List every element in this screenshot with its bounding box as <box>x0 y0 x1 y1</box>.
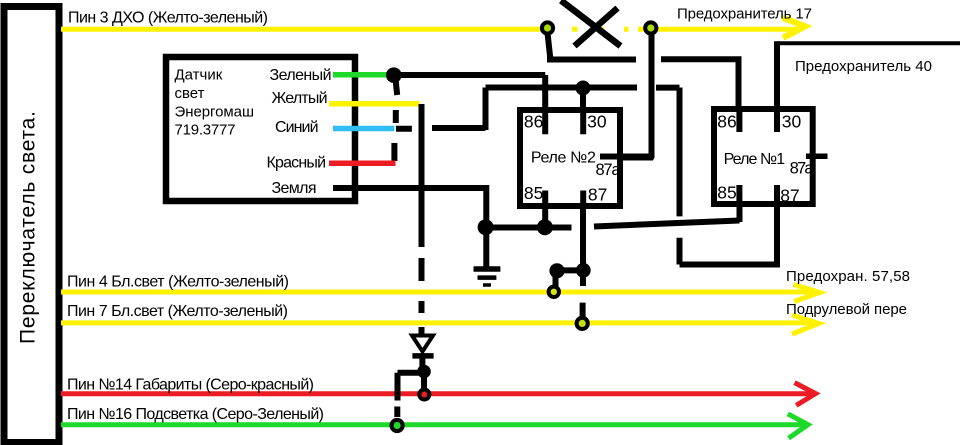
svg-text:Желтый: Желтый <box>272 90 328 107</box>
svg-text:Пин 3 ДХО (Желто-зеленый): Пин 3 ДХО (Желто-зеленый) <box>68 10 268 27</box>
wire: Pin 16 green line <box>61 414 808 438</box>
wire: blue lead (Синий) <box>333 126 394 132</box>
svg-text:Переключатель света.: Переключатель света. <box>17 111 40 344</box>
wire: yellow lead (Желтый) <box>329 101 420 107</box>
node: Pin4 tap <box>549 287 559 297</box>
svg-text:Пин №16 Подсветка (Серо-Зелены: Пин №16 Подсветка (Серо-Зеленый) <box>67 406 324 423</box>
junction dot: green wire <box>386 67 402 83</box>
wire: yellow vertical dashed down to diode <box>419 104 425 334</box>
junction dot: 87 node right <box>576 263 591 278</box>
wire: dashed link green dot to red lead <box>394 80 397 161</box>
svg-text:85: 85 <box>717 183 736 203</box>
relay2 pin stubs inside <box>545 107 583 209</box>
wire: ground lead (Земля) to ground symbol <box>333 185 486 267</box>
wire: red lead (Красный) <box>329 161 396 167</box>
sensor box Датчик свет <box>166 57 355 201</box>
diode cathode bar <box>412 353 433 359</box>
wire: Pin 3 DRL yellow line <box>61 18 805 38</box>
wire: diode to junction <box>419 358 425 368</box>
wire: ground bus y 227 to relay 85 pins <box>484 185 740 228</box>
wire: relay2 pin 85 stub <box>542 190 548 227</box>
wire: branch to green line <box>397 373 424 417</box>
svg-text:Реле №1: Реле №1 <box>724 151 786 168</box>
junction dot: bus to relay2-30 <box>576 81 591 96</box>
svg-text:свет: свет <box>175 85 205 102</box>
wire: green to relay2 pin 86 <box>394 75 545 135</box>
node: Pin7 tap <box>577 318 588 329</box>
wire: fuse 40 drop to relay1 pin 30 <box>774 41 780 132</box>
wire: lamp right terminal to relay2 87a <box>600 33 653 158</box>
junction dot: 87 node left <box>549 263 564 278</box>
svg-text:Энергомаш: Энергомаш <box>175 103 255 120</box>
svg-text:Подрулевой пере: Подрулевой пере <box>786 301 907 318</box>
wire: down to Pin7 line <box>580 270 586 317</box>
relay 1 box <box>714 109 813 204</box>
wire: blue wire black continuation to bus <box>396 88 486 131</box>
wire: relay1 pin 87 to bus <box>680 88 781 265</box>
svg-text:87а: 87а <box>790 159 815 177</box>
lamp X symbol <box>561 1 621 47</box>
junction dot: relay2-85 to ground bus <box>537 219 553 235</box>
svg-text:87а: 87а <box>596 161 622 179</box>
wire: green lead (Зеленый) <box>333 72 392 78</box>
wire: relay2 pin 87 down <box>580 189 586 270</box>
node: red tap <box>419 390 429 400</box>
relay2 87a stub <box>600 154 654 160</box>
svg-text:Земля: Земля <box>272 180 317 197</box>
junction dot: diode node <box>417 365 431 379</box>
svg-text:86: 86 <box>717 112 736 132</box>
svg-text:Красный: Красный <box>267 155 327 172</box>
svg-text:30: 30 <box>587 112 607 132</box>
light switch box <box>4 7 59 443</box>
diode symbol <box>412 336 433 352</box>
junction dot: ground bus left <box>478 219 494 235</box>
wire: node to red line <box>421 372 427 389</box>
svg-text:87: 87 <box>780 186 799 206</box>
relay 2 box <box>520 110 620 206</box>
wire: lamp left lead <box>548 33 551 59</box>
svg-text:Синий: Синий <box>275 119 319 136</box>
wire: branch vertical over red line <box>395 389 401 401</box>
wire: Pin 7 yellow line <box>61 315 819 334</box>
wire: Pin 14 red line <box>61 383 816 406</box>
node: green tap <box>392 420 403 431</box>
svg-text:Реле №2: Реле №2 <box>531 150 596 167</box>
connector node: lamp right <box>645 22 656 33</box>
relay1 pin stubs inside <box>739 106 777 206</box>
svg-text:Датчик: Датчик <box>175 67 223 84</box>
connector node: lamp left <box>542 22 553 33</box>
ground symbol <box>474 269 501 285</box>
wire: lamp to relay1 pin 86 <box>547 59 742 132</box>
svg-text:Пин 4 Бл.свет (Желто-зеленый): Пин 4 Бл.свет (Желто-зеленый) <box>67 274 289 291</box>
svg-text:Зеленый: Зеленый <box>270 67 332 84</box>
svg-text:30: 30 <box>782 112 802 132</box>
svg-text:Предохранитель 17: Предохранитель 17 <box>677 6 812 23</box>
svg-text:87: 87 <box>588 185 607 205</box>
svg-text:85: 85 <box>524 183 543 203</box>
wire: Pin 4 yellow line <box>61 285 820 302</box>
svg-text:Предохран. 57,58: Предохран. 57,58 <box>786 268 910 285</box>
wire: bus relay2-30 / relay1-87 / blue (y 87.5) <box>486 85 680 91</box>
wire: relay2 pin 30 stub <box>580 88 586 136</box>
svg-text:719.3777: 719.3777 <box>175 122 236 139</box>
svg-text:86: 86 <box>524 112 543 132</box>
svg-text:Пин №14 Габариты (Серо-красный: Пин №14 Габариты (Серо-красный) <box>67 377 314 394</box>
svg-text:Предохранитель 40: Предохранитель 40 <box>795 58 932 75</box>
relay1 87a stub <box>806 153 828 159</box>
wire: fuse 40 feed line <box>777 41 960 45</box>
wire: link to Pin4 line <box>556 270 584 286</box>
svg-text:Пин 7 Бл.свет (Желто-зеленый): Пин 7 Бл.свет (Желто-зеленый) <box>67 303 288 320</box>
